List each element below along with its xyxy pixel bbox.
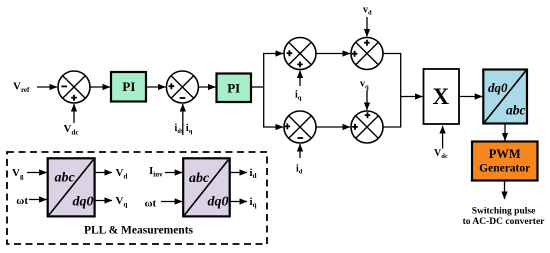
summing junction S4 (351, 38, 383, 70)
wire S4 output to merge node (383, 54, 401, 97)
PLL and measurements dashed enclosure (7, 152, 267, 244)
svg-text:Vdc: Vdc (434, 148, 448, 160)
svg-text:Vq: Vq (116, 195, 128, 208)
svg-text:dq0: dq0 (488, 80, 508, 95)
svg-text:Iinv: Iinv (149, 165, 163, 179)
block PI2 (217, 74, 252, 103)
node switching pulse output label (463, 207, 546, 228)
svg-text:dq0: dq0 (73, 195, 94, 210)
wire PI1 to summer S2 (146, 86, 165, 88)
summing junction S2 (166, 71, 198, 103)
svg-text:vq: vq (360, 79, 369, 91)
wire dq0-abc to PWM generator (504, 124, 506, 141)
svg-text:vd: vd (363, 5, 372, 17)
block abc-dq0 converter A (48, 158, 95, 216)
summing junction S1 (58, 71, 90, 103)
svg-text:to AC-DC converter: to AC-DC converter (463, 217, 546, 227)
svg-text:PLL & Measurements: PLL & Measurements (84, 225, 194, 237)
wire S2 to PI2 (198, 86, 215, 88)
svg-text:id, iq: id, iq (175, 123, 193, 135)
svg-text:Vdc: Vdc (64, 123, 79, 136)
summing junction S6 (351, 111, 383, 143)
svg-text:ωt: ωt (145, 198, 157, 210)
svg-text:iq: iq (295, 90, 302, 102)
wire Vg input to converter A (27, 172, 47, 174)
wire S5 to summer S6 (316, 126, 350, 128)
wire Iinv input to converter B (165, 172, 182, 174)
wire id input to S5 (299, 144, 301, 158)
wire vq input to S6 (366, 90, 368, 110)
wire Vref to summer S1 (37, 86, 57, 88)
svg-text:abc: abc (189, 171, 210, 186)
summing junction S5 (284, 111, 316, 143)
svg-text:Switching pulse: Switching pulse (472, 207, 536, 217)
wire wt input to converter A (29, 199, 47, 201)
wire Vd output of converter A (95, 172, 112, 174)
svg-text:PI: PI (122, 79, 135, 94)
block dq0-abc converter U1 (483, 70, 527, 124)
block abc-dq0 converter B (183, 158, 230, 216)
wire branch to summer S3 (263, 53, 283, 55)
svg-text:Vd: Vd (116, 167, 128, 180)
wire X block to dq0 abc converter (459, 96, 482, 98)
svg-text:iq: iq (250, 196, 257, 209)
wire branch to summer S5 (263, 126, 283, 128)
block PI1 (111, 72, 146, 102)
svg-text:Vg: Vg (12, 167, 24, 180)
wire S3 to summer S4 (316, 53, 350, 55)
block PWM generator (472, 142, 538, 181)
svg-text:dq0: dq0 (208, 195, 229, 210)
wire branch vertical (263, 54, 265, 128)
svg-text:X: X (432, 84, 449, 109)
svg-text:abc: abc (55, 171, 76, 186)
wire Vq output of converter A (95, 200, 112, 202)
svg-text:abc: abc (506, 103, 526, 118)
wire merge node to X block (401, 96, 423, 98)
wire id output of converter B (230, 172, 247, 174)
svg-text:PWM: PWM (489, 147, 521, 161)
block X multiplier (424, 69, 460, 124)
svg-text:PI: PI (227, 80, 240, 95)
svg-text:Generator: Generator (479, 163, 530, 175)
svg-text:Vref: Vref (13, 81, 30, 94)
wire iq output of converter B (230, 201, 247, 203)
svg-text:ωt: ωt (16, 195, 28, 207)
wire Vdc input to X block (442, 126, 444, 149)
svg-text:id: id (250, 167, 257, 180)
wire iq input to S3 (299, 71, 301, 87)
wire PI2 output to branch node (251, 86, 264, 88)
wire vd input to S4 (366, 17, 368, 37)
wire S6 output to merge node (383, 97, 401, 128)
wire PWM generator output (504, 181, 506, 200)
summing junction S3 (284, 38, 316, 70)
svg-text:id: id (296, 164, 303, 176)
wire Vdc input to S1 (73, 104, 75, 123)
wire id iq feedback input to S2 (182, 104, 184, 135)
wire wt input to converter B (161, 201, 182, 203)
wire S1 to PI1 (90, 86, 110, 88)
